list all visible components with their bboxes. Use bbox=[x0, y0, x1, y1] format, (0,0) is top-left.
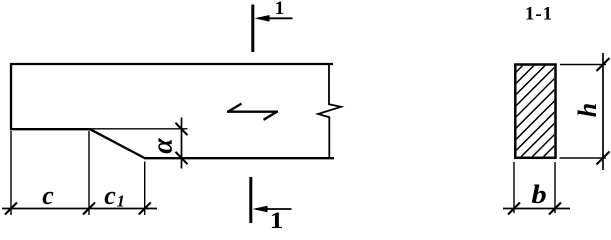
svg-text:h: h bbox=[573, 103, 602, 117]
extension line at slant end bbox=[144, 162, 146, 216]
section arrow top bbox=[255, 15, 293, 22]
tick at right bbox=[139, 203, 151, 215]
svg-text:1: 1 bbox=[117, 192, 126, 211]
section rectangle bbox=[515, 65, 555, 158]
dimension b extension left bbox=[513, 162, 515, 213]
beam bottom edge bbox=[144, 157, 334, 159]
dimension h tick bottom bbox=[597, 152, 610, 165]
extension line at notch corner bbox=[88, 131, 90, 215]
beam top edge bbox=[10, 63, 333, 65]
dimension a tick bottom bbox=[176, 152, 188, 164]
dimension label h bbox=[573, 103, 602, 117]
dimension label c1 bbox=[104, 181, 125, 211]
dimension h line bbox=[602, 53, 604, 170]
dimension b tick left bbox=[508, 203, 520, 215]
section arrow bottom bbox=[253, 206, 292, 213]
dimension label a bbox=[147, 138, 178, 154]
dimension a tick top bbox=[176, 123, 188, 135]
svg-text:1-1: 1-1 bbox=[525, 4, 553, 25]
section label 1 bottom bbox=[270, 208, 284, 233]
dimension label c bbox=[42, 181, 54, 210]
svg-text:c: c bbox=[42, 181, 54, 210]
dimension b extension right bbox=[554, 162, 556, 213]
dimension line c and c1 bbox=[2, 208, 157, 210]
dimension b line bbox=[503, 208, 570, 210]
dimension a line bbox=[181, 118, 183, 169]
section view title 1-1 bbox=[525, 4, 553, 25]
tick at left bbox=[5, 203, 17, 215]
beam right edge with break symbol bbox=[318, 64, 341, 159]
notch bottom edge bbox=[10, 128, 90, 130]
section cut line 1 top bbox=[251, 5, 254, 53]
dimension h extension bottom bbox=[560, 157, 607, 159]
section hatching bbox=[428, 62, 611, 160]
svg-text:b: b bbox=[531, 181, 546, 209]
dimension label b bbox=[531, 181, 546, 209]
tick at middle bbox=[83, 203, 95, 215]
notch slant edge bbox=[89, 129, 144, 158]
section cut line 1 bottom bbox=[249, 177, 252, 223]
dimension b tick right bbox=[549, 203, 561, 215]
svg-text:c: c bbox=[104, 181, 116, 210]
shear force symbol bbox=[227, 104, 278, 120]
dimension a extension line bbox=[90, 128, 188, 130]
beam left edge bbox=[10, 63, 12, 130]
svg-text:1: 1 bbox=[270, 208, 284, 229]
svg-text:α: α bbox=[147, 138, 178, 154]
dimension h extension top bbox=[560, 64, 606, 66]
svg-text:1: 1 bbox=[275, 0, 285, 19]
section label 1 top bbox=[275, 0, 285, 19]
dimension h tick top bbox=[597, 58, 610, 71]
extension line at left edge bbox=[10, 131, 12, 215]
